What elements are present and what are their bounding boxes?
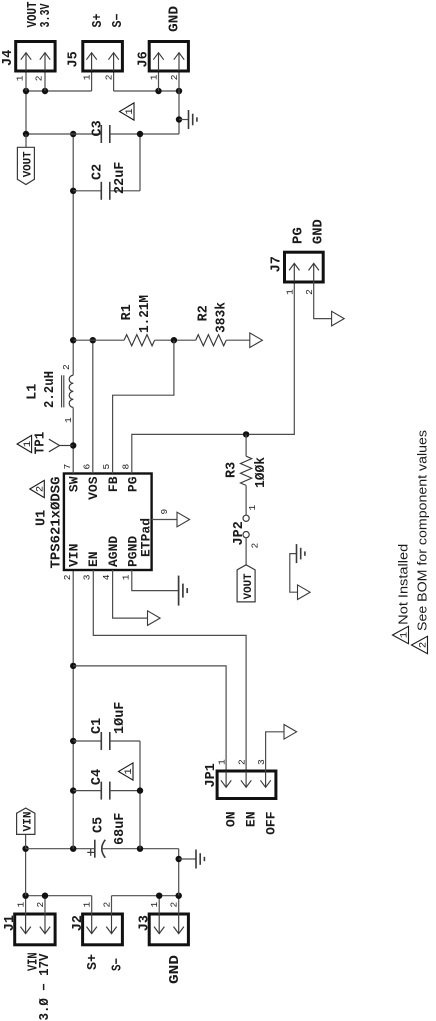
label L1 <box>26 384 41 400</box>
gnd tie wire (AGND-PGND) <box>290 554 298 593</box>
label VOUT (J4) <box>26 2 41 28</box>
pin 8 number (PG) <box>120 464 131 470</box>
pin name EN <box>86 551 101 567</box>
svg-text:EN: EN <box>86 551 101 567</box>
junction VOUT flag tap <box>23 131 29 137</box>
svg-text:1ØuF: 1ØuF <box>113 702 128 734</box>
resistor R1 1.21M <box>124 335 155 346</box>
pin 1 number L1 <box>63 417 74 423</box>
pin 1 number J6 <box>148 74 159 80</box>
svg-text:S−: S− <box>111 14 126 28</box>
ground symbol PGND <box>179 576 188 606</box>
label S- (J2 pin2) <box>111 958 126 971</box>
wire output gnd stem <box>179 119 189 121</box>
svg-text:SW: SW <box>67 476 82 492</box>
svg-text:PG: PG <box>292 227 307 244</box>
connector J1 (VIN input) <box>15 914 55 945</box>
label 3.3V <box>39 3 54 28</box>
label C1 <box>90 718 105 734</box>
junction VOS <box>90 337 96 343</box>
svg-text:J2: J2 <box>71 915 86 931</box>
note text Not Installed <box>396 544 411 625</box>
svg-text:2: 2 <box>35 486 47 492</box>
pin name AGND <box>106 536 121 567</box>
wire J3 pin1 stub <box>158 896 160 914</box>
svg-text:6: 6 <box>81 464 92 470</box>
label EN <box>244 812 259 828</box>
label S+ (J2 pin1) <box>86 954 101 970</box>
svg-text:VIN: VIN <box>23 812 35 832</box>
label ON <box>224 812 239 828</box>
junction J4.2 <box>42 88 48 94</box>
svg-text:C5: C5 <box>92 817 107 833</box>
pin 2 number JP1 <box>237 759 248 765</box>
wire EN pin <box>93 570 246 771</box>
svg-text:C4: C4 <box>90 769 105 785</box>
svg-text:R1: R1 <box>120 304 135 320</box>
svg-text:1: 1 <box>217 759 228 765</box>
wire PGND pin <box>132 570 179 591</box>
svg-text:1: 1 <box>148 74 159 80</box>
junction TP1 <box>70 442 76 448</box>
svg-text:Not Installed: Not Installed <box>396 544 411 625</box>
note text See BOM for component values <box>415 429 430 631</box>
label 3.0 - 17V <box>38 953 53 1021</box>
label R2 <box>197 305 212 321</box>
value 383k <box>215 302 230 333</box>
test point TP1 <box>49 439 73 452</box>
pin 2 number L1 <box>61 364 72 370</box>
pin 2 number J6 <box>169 74 180 80</box>
capacitor C2 22uF <box>73 182 140 200</box>
svg-text:4: 4 <box>101 574 112 580</box>
pin 1 number JP2 <box>247 505 258 511</box>
resistor R2 383k <box>196 335 227 346</box>
svg-text:J6: J6 <box>137 51 152 67</box>
wire VIN rail (C5 to U1 VIN) <box>72 570 74 849</box>
wire SW pin to L1 <box>72 407 74 473</box>
capacitor C5 68uF polarized <box>87 840 105 858</box>
label J1 <box>3 915 18 931</box>
junction VIN flag tap <box>22 846 28 852</box>
svg-text:1: 1 <box>399 632 411 638</box>
capacitor C3 (not installed) <box>26 125 179 143</box>
wire J2 pin2 stub <box>111 896 113 914</box>
pin 5 number (FB) <box>101 464 112 470</box>
wire ETPad pin 9 <box>152 519 177 521</box>
label VIN (J1 pin1) <box>27 953 42 972</box>
ground symbol at tie <box>297 544 305 563</box>
svg-text:1: 1 <box>63 417 74 423</box>
label C5 <box>92 817 107 833</box>
wire output gnd run <box>178 91 180 134</box>
label R3 <box>225 462 240 478</box>
svg-text:1: 1 <box>82 74 93 80</box>
wire J4 pin1 stub <box>25 71 27 91</box>
wire R3 right lead <box>245 434 247 456</box>
jumper JP1 (3-pin EN header) <box>217 771 276 799</box>
wire AGND pin <box>113 570 148 618</box>
svg-text:S+: S+ <box>86 954 101 970</box>
svg-text:VOUT: VOUT <box>243 573 255 599</box>
value 100k <box>254 457 269 488</box>
svg-text:2: 2 <box>237 759 248 765</box>
label R1 <box>120 304 135 320</box>
svg-text:1ØØk: 1ØØk <box>254 457 269 488</box>
connector J7 labels PG <box>292 227 307 244</box>
svg-text:C2: C2 <box>91 164 106 180</box>
svg-text:VIN: VIN <box>67 544 82 567</box>
net flag VOUT (output) <box>17 147 34 184</box>
pin 2 number J3 <box>169 902 180 908</box>
wire J1 pin2 stub <box>44 896 46 914</box>
connector J3 (input GND) <box>149 914 188 945</box>
jumper JP2 pin 1 <box>243 515 249 521</box>
pin name PG <box>125 476 140 492</box>
svg-text:JP2: JP2 <box>232 521 247 545</box>
pin 3 number (EN) <box>81 574 92 580</box>
pin 2 number J2 <box>101 902 112 908</box>
label C3 <box>91 120 106 136</box>
note triangle 1 (legend) <box>393 626 411 644</box>
svg-text:2: 2 <box>61 364 72 370</box>
svg-text:S−: S− <box>111 958 126 971</box>
svg-text:ETPad: ETPad <box>138 518 153 557</box>
svg-text:1: 1 <box>124 108 136 114</box>
label J5 <box>67 51 82 67</box>
pin name VOS <box>86 476 101 500</box>
value 22uF <box>113 162 128 194</box>
svg-text:1: 1 <box>82 902 93 908</box>
pin 1 number J2 <box>82 902 93 908</box>
wire J2 pin1 stub <box>91 896 93 914</box>
junction output gnd symbol tap <box>176 116 182 122</box>
note triangle 1 at C3 <box>120 103 137 120</box>
op-amp U1 body TPS621x0DSG <box>64 474 152 571</box>
svg-text:J5: J5 <box>67 51 82 67</box>
junction J1.1 <box>22 893 28 899</box>
wire JP1 pin3 to gnd <box>266 732 284 771</box>
connector J6 (output GND) <box>149 42 188 72</box>
junction J6.2 <box>176 88 182 94</box>
svg-text:TP1: TP1 <box>34 432 49 455</box>
svg-text:2: 2 <box>169 74 180 80</box>
net flag VIN <box>17 808 35 834</box>
pin 1 number (PGND) <box>120 574 131 580</box>
label J4 <box>1 50 16 66</box>
label J6 <box>137 51 152 67</box>
note triangle 1 at C4 <box>119 763 136 780</box>
pin name FB <box>106 476 121 492</box>
svg-text:J4: J4 <box>1 50 16 66</box>
svg-text:J1: J1 <box>3 915 18 931</box>
svg-text:2: 2 <box>33 75 44 81</box>
svg-text:GND: GND <box>312 219 327 244</box>
svg-text:ON: ON <box>224 812 239 828</box>
wire J4 pin2 stub <box>44 71 46 91</box>
svg-text:3.Ø − 17V: 3.Ø − 17V <box>38 953 53 1021</box>
svg-text:3: 3 <box>81 574 92 580</box>
capacitor C4 (not installed) <box>73 782 140 800</box>
wire gnd symbol stem <box>179 858 196 860</box>
wire VOUT jog top <box>25 91 27 134</box>
wire C2 bottom tie <box>139 134 141 191</box>
svg-text:JP1: JP1 <box>204 763 219 787</box>
junction J3.1 <box>156 893 162 899</box>
value 2.2uH <box>43 371 58 408</box>
wire input gnd tie <box>139 741 141 849</box>
wire input column top (flag to rail) <box>26 848 95 850</box>
svg-text:2.2uH: 2.2uH <box>43 371 58 408</box>
svg-text:L1: L1 <box>26 384 41 400</box>
junction VIN rail start <box>70 846 76 852</box>
value TPS621x0DSG <box>50 477 65 569</box>
svg-text:1: 1 <box>16 902 27 908</box>
svg-text:C1: C1 <box>90 718 105 734</box>
gnd arrow J7 <box>332 311 345 326</box>
svg-text:2: 2 <box>35 902 46 908</box>
label S- (J5) <box>111 14 126 28</box>
pin 1 number J1 <box>16 902 27 908</box>
pin 1 number J7 <box>285 289 296 295</box>
ground symbol (input) <box>196 850 204 869</box>
wire R1 to FB node <box>155 339 196 341</box>
junction C1 top <box>70 738 76 744</box>
junction J6.1 <box>155 88 161 94</box>
junction JP1 drop <box>70 663 76 669</box>
svg-text:J3: J3 <box>138 915 153 931</box>
pin name VIN <box>67 544 82 567</box>
svg-text:1: 1 <box>123 768 135 774</box>
note triangle 2 at U1 <box>30 480 47 497</box>
label S+ (J5) <box>91 14 106 28</box>
label J3 <box>138 915 153 931</box>
inductor L1 2.2uH <box>62 375 74 407</box>
svg-text:1: 1 <box>120 574 131 580</box>
pin 7 number (SW) <box>62 464 73 470</box>
connector J2 (input sense) <box>83 914 123 945</box>
svg-text:VOS: VOS <box>86 476 101 500</box>
label C2 <box>91 164 106 180</box>
junction C4 bottom <box>137 787 143 793</box>
svg-text:2: 2 <box>169 902 180 908</box>
svg-text:AGND: AGND <box>106 536 121 567</box>
svg-text:383k: 383k <box>215 302 230 333</box>
pin 3 number JP1 <box>256 759 267 765</box>
wire L1 to VOUT rail <box>72 134 74 375</box>
svg-text:1: 1 <box>149 902 160 908</box>
connector J7 (PG output) <box>285 252 324 282</box>
note triangle 2 (legend) <box>412 636 430 654</box>
wire VOS pin <box>92 340 94 473</box>
note triangle 1 at TP1 <box>17 435 34 452</box>
svg-text:GND: GND <box>168 955 183 984</box>
svg-text:FB: FB <box>106 476 121 492</box>
junction R3 tap <box>243 431 249 437</box>
pin 6 number (VOS) <box>81 464 92 470</box>
svg-text:9: 9 <box>159 509 170 515</box>
connector J5 (output sense) <box>83 42 123 72</box>
pin name PGND <box>125 536 140 567</box>
svg-text:3.3V: 3.3V <box>39 3 54 28</box>
wire J6 pin1 stub <box>158 71 160 91</box>
pin 4 number (AGND) <box>101 574 112 580</box>
svg-text:1: 1 <box>14 75 25 81</box>
wire gnd run to bus <box>178 849 180 896</box>
svg-text:VOUT: VOUT <box>23 151 35 177</box>
svg-text:2: 2 <box>62 574 73 580</box>
resistor R3 100k <box>241 456 252 485</box>
wire VIN flag stub <box>25 834 27 848</box>
junction C5/gnd-tie <box>137 846 143 852</box>
gnd arrow JP1 OFF <box>284 725 297 740</box>
pin 2 number J5 <box>104 74 115 80</box>
wire input column bottom (C5 to gnd run) <box>102 848 179 850</box>
connector J4 (VOUT) <box>16 42 55 72</box>
junction C4 top <box>70 787 76 793</box>
svg-text:8: 8 <box>120 464 131 470</box>
svg-text:J7: J7 <box>269 256 284 272</box>
wire divider upper <box>73 339 124 341</box>
jumper JP2 pin 2 <box>243 532 249 538</box>
label OFF <box>264 811 279 835</box>
svg-text:2: 2 <box>104 74 115 80</box>
pin 2 number J7 <box>304 289 315 295</box>
label TP1 <box>34 432 49 455</box>
label GND (J6) <box>168 6 183 32</box>
gnd arrow at tie <box>298 585 311 600</box>
svg-text:OFF: OFF <box>264 811 279 835</box>
svg-text:7: 7 <box>62 464 73 470</box>
svg-text:U1: U1 <box>35 510 50 526</box>
pin 1 number J3 <box>149 902 160 908</box>
wire VOUT flag stub <box>25 134 27 147</box>
wire J1 pin1 stub <box>25 896 27 914</box>
wire J5 pin1 stub <box>91 71 93 91</box>
junction gnd symbol tap <box>176 856 182 862</box>
label JP1 <box>204 763 219 787</box>
pin 2 number J4 <box>33 75 44 81</box>
svg-text:R2: R2 <box>197 305 212 321</box>
svg-text:68uF: 68uF <box>113 813 128 845</box>
value 68uF <box>113 813 128 845</box>
value 10uF <box>113 702 128 734</box>
svg-text:1: 1 <box>285 289 296 295</box>
label J7 <box>269 256 284 272</box>
svg-text:1.21M: 1.21M <box>138 295 153 333</box>
svg-text:EN: EN <box>244 812 259 828</box>
gnd arrow ETPad <box>177 512 190 527</box>
pin 2 number J1 <box>35 902 46 908</box>
svg-text:GND: GND <box>168 6 183 32</box>
wire J3 pin2 stub <box>178 896 180 914</box>
pin 2 number JP2 <box>250 543 261 549</box>
wire JP1 pin1 to VIN rail <box>73 666 226 771</box>
svg-text:2: 2 <box>418 642 430 648</box>
value 1.21M <box>138 295 153 333</box>
junction J3.2 <box>176 893 182 899</box>
label U1 <box>35 510 50 526</box>
label C4 <box>90 769 105 785</box>
label J2 <box>71 915 86 931</box>
junction J1.2 <box>42 893 48 899</box>
net flag VOUT (JP2) <box>237 565 255 602</box>
svg-text:22uF: 22uF <box>113 162 128 194</box>
junction C3 rail cross <box>70 131 76 137</box>
svg-text:1: 1 <box>22 441 34 447</box>
svg-text:S+: S+ <box>91 14 106 28</box>
pin name ETPad <box>138 518 153 557</box>
svg-text:2: 2 <box>101 902 112 908</box>
pin 1 number J5 <box>82 74 93 80</box>
wire FB pin jog <box>113 340 174 473</box>
label JP2 <box>232 521 247 545</box>
svg-text:TPS621xØDSG: TPS621xØDSG <box>50 477 65 569</box>
svg-text:See BOM for component values: See BOM for component values <box>415 429 430 631</box>
pin 9 number (ETPad) <box>159 509 170 515</box>
junction divider top <box>70 337 76 343</box>
pin 1 number J4 <box>14 75 25 81</box>
junction J4.1 <box>23 88 29 94</box>
svg-text:R3: R3 <box>225 462 240 478</box>
connector J7 labels GND <box>312 219 327 244</box>
capacitor C1 10uF <box>73 732 140 750</box>
svg-text:5: 5 <box>101 464 112 470</box>
gnd arrow AGND <box>148 611 161 626</box>
junction C3/C2 gnd <box>137 131 143 137</box>
wire VIN link to flag column <box>25 849 27 896</box>
junction C2 top <box>70 188 76 194</box>
wire J7 pin2 to gnd <box>314 282 332 319</box>
gnd arrow R2 <box>250 333 263 348</box>
wire VOUT bus (J4-J5.1) <box>26 90 92 92</box>
wire VIN bus (J1-J2.1) <box>26 895 92 897</box>
pin name SW <box>67 476 82 492</box>
wire JP2 to VOUT flag <box>245 538 247 565</box>
pin 2 number (VIN) <box>62 574 73 580</box>
wire GND bus (J2.2-J3.2) <box>112 895 179 897</box>
wire J5 pin2 stub <box>113 71 115 91</box>
svg-text:1: 1 <box>247 505 258 511</box>
svg-text:C3: C3 <box>91 120 106 136</box>
junction FB node <box>171 337 177 343</box>
pin 1 number JP1 <box>217 759 228 765</box>
wire R3 left lead <box>245 485 247 515</box>
svg-text:PG: PG <box>125 476 140 492</box>
wire J6 pin2 stub <box>178 71 180 91</box>
svg-text:2: 2 <box>250 543 261 549</box>
wire R2 to gnd arrow <box>226 339 250 341</box>
wire GND bus (J5.2-J6.2) <box>114 90 179 92</box>
label GND (J3) <box>168 955 183 984</box>
ground symbol (output) <box>189 110 197 129</box>
wire PG pin <box>132 282 294 474</box>
